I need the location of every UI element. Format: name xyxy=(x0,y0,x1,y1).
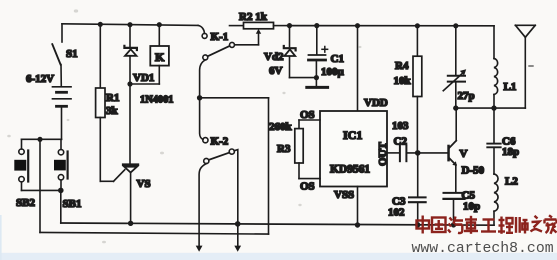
inductor L2 xyxy=(494,174,518,225)
wire: K-2 right throw to ground rail xyxy=(234,150,238,246)
svg-text:10p: 10p xyxy=(463,201,480,213)
char zhi xyxy=(531,216,543,232)
capacitor C2 103 xyxy=(392,120,409,161)
transistor V D-50 xyxy=(447,141,484,177)
node: VD1 top on rail xyxy=(127,22,132,27)
svg-text:K-1: K-1 xyxy=(211,31,229,43)
variable capacitor 27p xyxy=(443,26,474,108)
svg-text:SB2: SB2 xyxy=(16,197,35,209)
capacitor C1 100u electrolytic xyxy=(309,26,345,86)
wire: top rail right xyxy=(288,25,495,27)
wire: drop to ground rail xyxy=(60,190,62,223)
svg-text:SB1: SB1 xyxy=(63,198,82,210)
node: C5 bottom on ground rail xyxy=(451,222,456,227)
svg-text:IC1: IC1 xyxy=(343,128,362,142)
wire: lower return rail xyxy=(40,232,269,234)
char shi xyxy=(516,217,528,234)
wire: SB2 bottom to SB1 bottom xyxy=(22,189,61,191)
wire: Vd2 anode to C1 bottom xyxy=(290,77,317,79)
wire: battery negative down xyxy=(61,107,63,139)
node: C1 top on rail xyxy=(314,23,319,28)
capacitor C5 10p xyxy=(444,190,481,225)
svg-text:3k: 3k xyxy=(106,105,119,117)
ground bar under C1 xyxy=(307,86,328,89)
svg-text:VSS: VSS xyxy=(334,189,354,201)
svg-text:1N4001: 1N4001 xyxy=(140,95,173,106)
svg-text:260k: 260k xyxy=(269,121,293,133)
svg-text:K: K xyxy=(155,50,165,64)
wire: gate wire to VS xyxy=(100,180,113,182)
svg-text:VD1: VD1 xyxy=(133,72,154,84)
node: C3 bottom on ground rail xyxy=(415,222,420,227)
resistor R4 10k xyxy=(394,26,422,150)
resistor R1 3k xyxy=(96,24,120,181)
node: VD1 anode / K coil / VS anode junction xyxy=(127,81,132,86)
potentiometer R2 1k wiper arrow xyxy=(256,29,261,45)
resistor R3 260k xyxy=(269,120,303,179)
wire: K-1 blade to R2 wiper xyxy=(235,44,259,46)
node: R4 top on rail xyxy=(415,23,420,28)
relay coil K xyxy=(150,25,169,84)
relay contact K-1 xyxy=(198,25,235,60)
watermark red chinese line xyxy=(417,215,557,234)
node: Vd2 top on rail xyxy=(287,23,292,28)
svg-text:OS: OS xyxy=(300,181,315,193)
wire: riser from lower rail up to relay switch common xyxy=(268,98,270,234)
node: VS cathode on ground rail xyxy=(128,221,133,226)
ground arrow left xyxy=(196,246,203,252)
svg-text:103: 103 xyxy=(392,120,409,132)
svg-text:KD9561: KD9561 xyxy=(330,163,370,176)
svg-text:V: V xyxy=(460,148,468,160)
svg-text:6V: 6V xyxy=(269,65,283,77)
svg-text:27p: 27p xyxy=(458,90,475,102)
svg-text:R3: R3 xyxy=(277,143,291,155)
inductor L1 xyxy=(494,26,516,108)
wire: K switch common column xyxy=(197,60,205,140)
char gong xyxy=(481,220,496,232)
wire: tee to push buttons xyxy=(22,138,62,140)
svg-text:VDD: VDD xyxy=(364,97,388,109)
node: K coil top on rail xyxy=(157,22,162,27)
svg-text:R2 1k: R2 1k xyxy=(239,11,268,23)
char jia xyxy=(545,215,557,234)
wire: VSS pin to ground rail xyxy=(357,187,359,226)
svg-text:L2: L2 xyxy=(505,176,518,188)
diode VD1 1N4001 xyxy=(124,25,173,106)
svg-text:VS: VS xyxy=(137,178,151,190)
antenna xyxy=(515,25,535,108)
node: VSS on ground rail xyxy=(355,222,360,227)
relay contact K-2 xyxy=(203,136,235,164)
char zhong xyxy=(417,216,430,234)
svg-text:R1: R1 xyxy=(106,92,119,104)
char che xyxy=(464,216,478,234)
wire: tie to K switch column xyxy=(200,97,269,99)
ground arrow right xyxy=(234,246,241,252)
wire: top rail left (battery positive to K-1) xyxy=(62,24,198,26)
node: L1 bottom junction xyxy=(491,105,496,110)
char qi xyxy=(448,217,463,234)
svg-text:R4: R4 xyxy=(395,60,409,72)
svg-text:K-2: K-2 xyxy=(211,136,229,148)
node: R1 top on rail xyxy=(98,22,103,27)
svg-text:OUT: OUT xyxy=(377,142,389,167)
wire: junction to K coil bottom xyxy=(130,83,159,85)
node: variable capacitor top on rail xyxy=(453,23,458,28)
wire: ground rail xyxy=(61,223,494,225)
wire: collector up xyxy=(455,108,457,141)
wire: OUT pin xyxy=(387,152,399,154)
zener diode Vd2 6V xyxy=(264,26,296,78)
op IC1 KD9561 box xyxy=(320,111,389,187)
svg-text:D-50: D-50 xyxy=(462,165,485,177)
svg-text:102: 102 xyxy=(388,207,405,219)
node: R4 / C3 / base junction xyxy=(415,150,421,156)
wire: VDD pin xyxy=(357,26,359,111)
svg-text:Vd2: Vd2 xyxy=(264,51,284,63)
pushbutton SB1 xyxy=(54,139,81,210)
node: on ground rail xyxy=(235,221,241,227)
node: tank junction left xyxy=(453,105,458,110)
wire: OS top stub xyxy=(299,119,320,121)
capacitor C6 18p xyxy=(487,108,519,174)
wire: tank tie line to antenna xyxy=(456,107,526,109)
node: C1 bottom junction xyxy=(314,75,319,80)
wire: emitter down xyxy=(455,165,457,193)
battery B 6~12V xyxy=(26,73,71,106)
svg-text:6-12V: 6-12V xyxy=(26,73,54,85)
svg-text:L1: L1 xyxy=(504,81,517,93)
wire: drop to lower return rail xyxy=(39,139,41,232)
wire: OS bottom stub xyxy=(299,178,320,180)
capacitor C3 102 xyxy=(388,156,426,225)
svg-text:C1: C1 xyxy=(331,53,344,65)
char cheng xyxy=(498,217,513,234)
switch S1 xyxy=(52,24,77,87)
svg-text:100μ: 100μ xyxy=(321,66,345,78)
node: junction battery negative / ground drop xyxy=(37,137,42,142)
potentiometer R2 1k xyxy=(230,11,288,29)
bottom blue band xyxy=(0,253,557,260)
char guo xyxy=(432,218,446,233)
node: junction SB bottoms xyxy=(58,188,64,194)
svg-text:18p: 18p xyxy=(502,146,519,158)
scan speckles xyxy=(7,9,361,243)
wire: K-2 left throw to ground arrow xyxy=(199,164,206,246)
svg-text:S1: S1 xyxy=(66,48,78,60)
thyristor VS xyxy=(123,84,150,223)
pushbutton SB2 xyxy=(14,139,35,209)
wire: C2 to transistor base xyxy=(407,152,448,154)
svg-text:10k: 10k xyxy=(394,75,412,87)
svg-text:C2: C2 xyxy=(394,136,408,148)
node: VDD top on rail xyxy=(355,23,360,28)
